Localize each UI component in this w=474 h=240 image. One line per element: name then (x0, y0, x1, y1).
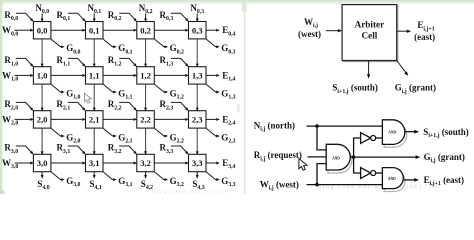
svg-text:R3,3: R3,3 (160, 143, 174, 155)
svg-text:0,1: 0,1 (89, 25, 100, 35)
wire G1,1 grant output (103, 84, 117, 93)
wire E3,1: cell 3,0 east to cell 3,1 west (51, 162, 86, 165)
svg-text:G0,2: G0,2 (170, 43, 184, 55)
wire S1,1: cell 0,1 south to cell 1,1 north (93, 39, 96, 68)
separator green mark upper (242, 2, 247, 12)
svg-text:AND: AND (388, 177, 396, 181)
svg-text:R3,1: R3,1 (57, 143, 71, 155)
wire W2,0 into cell 2,0 (15, 118, 35, 121)
svg-text:G0,3: G0,3 (221, 43, 235, 55)
wire E1,3: cell 1,2 east to cell 1,3 west (154, 74, 189, 77)
AND2 top AND gate (382, 120, 404, 145)
svg-text:0,3: 0,3 (192, 25, 203, 35)
wire E0,3: cell 0,2 east to cell 0,3 west (154, 29, 189, 32)
svg-text:1,1: 1,1 (89, 71, 100, 81)
wire W into cell (326, 30, 339, 32)
svg-text:1,0: 1,0 (37, 71, 48, 81)
svg-text:Arbiter: Arbiter (355, 19, 385, 29)
junction N tap (315, 124, 319, 128)
svg-text:3,1: 3,1 (89, 158, 100, 168)
wire N horizontal (307, 125, 383, 127)
wire W horizontal (307, 184, 383, 186)
svg-text:(east): (east) (414, 32, 435, 42)
net R2,3 (request input wire of cell 2,3) (171, 102, 189, 111)
wire G1,3 grant output (206, 84, 220, 93)
wire G0,3 grant output (206, 39, 220, 48)
wire S4,2 south output (144, 172, 147, 179)
wire S output (405, 131, 415, 133)
net R2,0 (request input wire of cell 2,0) (16, 102, 34, 111)
svg-text:G2,0: G2,0 (66, 132, 80, 144)
wire S3,3: cell 2,3 south to cell 3,3 north (196, 128, 199, 155)
slide edge green bar top (0, 0, 474, 2)
svg-text:G2,2: G2,2 (170, 132, 184, 144)
wire E2,4 east output (206, 118, 220, 121)
wire E0,1: cell 0,0 east to cell 0,1 west (51, 29, 86, 32)
wire G1,2 grant output (155, 84, 169, 93)
svg-text:3,2: 3,2 (140, 158, 151, 168)
junction G node (352, 155, 356, 159)
svg-text:G1,0: G1,0 (66, 88, 80, 100)
svg-text:G3,0: G3,0 (66, 176, 80, 188)
net R0,0 (request input wire of cell 0,0) (16, 13, 34, 22)
arbiter cell 3,3 (189, 154, 207, 171)
inverter I1 (361, 133, 371, 144)
svg-text:G3,3: G3,3 (221, 176, 235, 188)
wire G3,0 grant output (51, 172, 64, 181)
svg-text:Gi,j (grant): Gi,j (grant) (395, 83, 436, 95)
wire E2,3: cell 2,2 east to cell 2,3 west (154, 118, 189, 121)
svg-text:Ni,j (north): Ni,j (north) (254, 120, 295, 132)
svg-text:N0,0: N0,0 (35, 3, 49, 15)
svg-text:Wi,j: Wi,j (304, 17, 318, 29)
wire E3,3: cell 3,2 east to cell 3,3 west (154, 162, 189, 165)
wire S2,1: cell 1,1 south to cell 2,1 north (93, 84, 96, 111)
wire S1,3: cell 0,3 south to cell 1,3 north (196, 39, 199, 68)
svg-text:(west): (west) (298, 29, 321, 39)
wire S4,1 south output (93, 172, 96, 179)
wire S1,2: cell 0,2 south to cell 1,2 north (144, 39, 147, 68)
wire N tap down into AND1 (317, 126, 326, 150)
wire E output (403, 179, 415, 181)
inverter I2 (361, 168, 371, 179)
wire G0,0 grant output (51, 39, 64, 48)
arbiter cell 1,0 (33, 67, 51, 84)
wire E out of cell (397, 30, 408, 32)
svg-text:Si+1,j (south): Si+1,j (south) (332, 83, 377, 95)
svg-text:Ei,j+1 (east): Ei,j+1 (east) (424, 175, 464, 187)
svg-text:G2,1: G2,1 (118, 132, 132, 144)
wire E1,1: cell 1,0 east to cell 1,1 west (51, 74, 86, 77)
window separator line (244, 0, 246, 194)
svg-text:E0,4: E0,4 (222, 25, 235, 37)
net R2,2 (request input wire of cell 2,2) (119, 102, 137, 111)
wire I2 to AND3 (376, 172, 383, 174)
svg-text:W2,0: W2,0 (2, 114, 18, 126)
wire E3,4 east output (206, 162, 220, 165)
svg-text:2,3: 2,3 (192, 115, 203, 125)
svg-text:R0,3: R0,3 (160, 10, 174, 22)
svg-text:E2,4: E2,4 (222, 114, 235, 126)
arbiter cell 1,2 (137, 67, 155, 84)
net R3,3 (request input wire of cell 3,3) (171, 146, 189, 155)
svg-text:R1,1: R1,1 (57, 55, 71, 67)
wire E3,2: cell 3,1 east to cell 3,2 west (103, 162, 137, 165)
svg-text:N0,2: N0,2 (139, 3, 153, 15)
wire S3,0: cell 2,0 south to cell 3,0 north (41, 128, 44, 155)
wire G0,1 grant output (103, 39, 117, 48)
net R0,3 (request input wire of cell 0,3) (171, 13, 189, 22)
wire S2,0: cell 1,0 south to cell 2,0 north (41, 84, 44, 111)
wire G3,1 grant output (103, 172, 117, 181)
AND1 3-input gate shadow (328, 147, 352, 173)
wire E2,1: cell 2,0 east to cell 2,1 west (51, 118, 86, 121)
wire G to grant arrow (354, 156, 417, 158)
svg-text:G3,2: G3,2 (170, 176, 184, 188)
wire G3,2 grant output (155, 172, 169, 181)
wire G2,0 grant output (51, 128, 64, 137)
svg-text:R2,2: R2,2 (108, 99, 122, 111)
wire E0,2: cell 0,1 east to cell 0,2 west (103, 29, 137, 32)
svg-text:W3,0: W3,0 (2, 158, 18, 170)
svg-text:G3,1: G3,1 (118, 176, 132, 188)
svg-text:R1,2: R1,2 (108, 55, 122, 67)
svg-text:S4,1: S4,1 (90, 179, 102, 191)
svg-text:AND: AND (332, 156, 340, 160)
svg-text:R3,0: R3,0 (4, 143, 18, 155)
arbiter cell 0,2 (137, 22, 155, 39)
wire S4,3 south output (196, 172, 199, 179)
wire G2,3 grant output (206, 128, 220, 137)
wire W0,0 into cell 0,0 (15, 29, 35, 32)
arbiter cell 2,2 (137, 111, 155, 128)
svg-text:R0,2: R0,2 (108, 10, 122, 22)
wire E2,2: cell 2,1 east to cell 2,2 west (103, 118, 137, 121)
wire G1,0 grant output (51, 84, 64, 93)
svg-text:Cell: Cell (361, 31, 377, 41)
wire E0,4 east output (206, 29, 220, 32)
wire S2,3: cell 1,3 south to cell 2,3 north (196, 84, 199, 111)
wire AND1 output (350, 156, 353, 158)
arbiter cell 1,3 (189, 67, 207, 84)
wire N0,2 into cell 0,2 (144, 13, 147, 22)
wire G down-branch to inverter I2 (354, 157, 361, 173)
svg-text:0,2: 0,2 (140, 25, 151, 35)
svg-text:G1,2: G1,2 (170, 88, 184, 100)
svg-text:R3,2: R3,2 (108, 143, 122, 155)
wire G3,3 grant output (206, 172, 220, 181)
svg-text:W1,0: W1,0 (2, 70, 18, 82)
svg-text:E3,4: E3,4 (222, 158, 235, 170)
svg-text:G2,3: G2,3 (221, 132, 235, 144)
svg-text:R0,1: R0,1 (57, 10, 71, 22)
wire G out of cell corner (397, 61, 406, 73)
wire G2,1 grant output (103, 128, 117, 137)
AND1 3-input AND gate (326, 144, 350, 170)
arbiter cell box U0 (342, 5, 397, 61)
wire I1 to AND2 (376, 137, 383, 139)
AND3 gate shadow (384, 171, 405, 192)
wire E1,2: cell 1,1 east to cell 1,2 west (103, 74, 137, 77)
net R1,1 (request input wire of cell 1,1) (68, 58, 86, 67)
svg-text:AND: AND (388, 131, 396, 135)
arbiter cell 2,0 (33, 111, 51, 128)
svg-text:R2,3: R2,3 (160, 99, 174, 111)
svg-text:2,1: 2,1 (89, 115, 100, 125)
svg-text:R2,0: R2,0 (4, 99, 18, 111)
net R1,2 (request input wire of cell 1,2) (119, 58, 137, 67)
arbiter cell 0,0 (33, 22, 51, 39)
svg-text:Ri,j (request): Ri,j (request) (254, 150, 302, 162)
net R1,3 (request input wire of cell 1,3) (171, 58, 189, 67)
wire G2,2 grant output (155, 128, 169, 137)
svg-text:Si+1,j (south): Si+1,j (south) (423, 127, 468, 139)
net R1,0 (request input wire of cell 1,0) (16, 58, 34, 67)
svg-text:E1,4: E1,4 (222, 70, 235, 82)
arbiter cell box shadow (343, 6, 398, 62)
svg-text:G0,1: G0,1 (118, 43, 132, 55)
svg-text:N0,1: N0,1 (88, 3, 102, 15)
slide edge green bar left (0, 0, 2, 194)
svg-text:3,0: 3,0 (37, 158, 48, 168)
AND3 bottom AND gate (382, 168, 403, 189)
wire S1,0: cell 0,0 south to cell 1,0 north (41, 39, 44, 68)
svg-text:G1,1: G1,1 (118, 88, 132, 100)
svg-text:G1,3: G1,3 (221, 88, 235, 100)
wire W1,0 into cell 1,0 (15, 74, 35, 77)
net R2,1 (request input wire of cell 2,1) (68, 102, 86, 111)
svg-text:Wi,j (west): Wi,j (west) (260, 179, 299, 191)
svg-text:W0,0: W0,0 (2, 25, 18, 37)
net R3,1 (request input wire of cell 3,1) (68, 146, 86, 155)
net R0,2 (request input wire of cell 0,2) (119, 13, 137, 22)
arbiter cell 3,0 (33, 154, 51, 171)
slide edge green corner bottom-left (0, 190, 5, 194)
arbiter cell 1,1 (86, 67, 104, 84)
svg-text:G0,0: G0,0 (66, 43, 80, 55)
svg-text:Ei,j+1: Ei,j+1 (417, 20, 434, 32)
svg-text:R2,1: R2,1 (57, 99, 71, 111)
svg-text:blog.csdn.net/weixin: blog.csdn.net/weixin (152, 189, 229, 194)
wire W3,0 into cell 3,0 (15, 162, 35, 165)
arbiter cell 3,1 (86, 154, 104, 171)
wire E1,4 east output (206, 74, 220, 77)
svg-text:R1,0: R1,0 (4, 55, 18, 67)
arbiter cell 0,3 (189, 22, 207, 39)
wire S4,0 south output (41, 172, 44, 179)
wire N0,3 into cell 0,3 (196, 13, 199, 22)
svg-text:R1,3: R1,3 (160, 55, 174, 67)
mouse cursor on left grid (85, 93, 92, 103)
wire G0,2 grant output (155, 39, 169, 48)
arbiter cell 0,1 (86, 22, 104, 39)
wire R into AND1 (308, 156, 327, 158)
net R3,2 (request input wire of cell 3,2) (119, 146, 137, 155)
arbiter cell 2,1 (86, 111, 104, 128)
svg-text:S4,0: S4,0 (37, 179, 49, 191)
svg-text:N0,3: N0,3 (190, 3, 204, 15)
svg-text:Gi,j (grant): Gi,j (grant) (424, 152, 465, 164)
wire S3,2: cell 2,2 south to cell 3,2 north (144, 128, 147, 155)
junction W tap (315, 183, 319, 187)
svg-text:R0,0: R0,0 (4, 10, 18, 22)
svg-text:2,0: 2,0 (37, 115, 48, 125)
mouse cursor near request label (299, 159, 307, 171)
net R3,0 (request input wire of cell 3,0) (16, 146, 34, 155)
svg-text:1,3: 1,3 (192, 71, 203, 81)
svg-text:3,3: 3,3 (192, 158, 203, 168)
wire N0,1 into cell 0,1 (93, 13, 96, 22)
wire W tap up into AND1 (317, 164, 326, 185)
wire G up-branch to inverter I1 (354, 138, 361, 157)
arbiter cell 3,2 (137, 154, 155, 171)
wire S out of cell bottom (368, 61, 370, 75)
wire S3,1: cell 2,1 south to cell 3,1 north (93, 128, 96, 155)
svg-text:0,0: 0,0 (37, 25, 48, 35)
wire N0,0 into cell 0,0 (41, 13, 44, 22)
wire S2,2: cell 1,2 south to cell 2,2 north (144, 84, 147, 111)
svg-text:1,2: 1,2 (140, 71, 151, 81)
arbiter cell 2,3 (189, 111, 207, 128)
AND2 gate shadow (384, 123, 407, 148)
separator green mark middle (237, 104, 240, 113)
net R0,1 (request input wire of cell 0,1) (68, 13, 86, 22)
svg-text:2,2: 2,2 (140, 115, 151, 125)
